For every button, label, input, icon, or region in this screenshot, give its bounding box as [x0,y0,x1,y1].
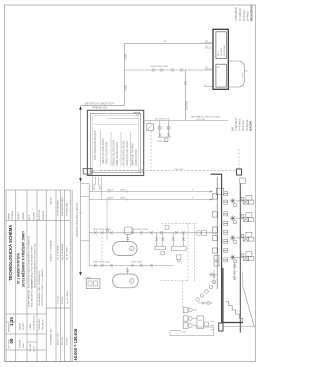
mixer M1 sunburst [230,198,236,263]
title block table [6,190,70,362]
blower assembly A2 [171,233,186,262]
pump train B piping [89,265,174,267]
svg-text:LWL/UWL: LWL/UWL [175,169,185,171]
svg-text:PROJEKCE: PROJEKCE [43,319,45,330]
svg-text:Ing. P. SVOBODA: Ing. P. SVOBODA [61,243,64,260]
tank T1 top right (double dark) [213,29,228,89]
svg-text:DN80: DN80 [120,190,126,192]
pump discharge loop [170,327,214,336]
box 2x ON [86,279,100,289]
wire feed line 2 [89,199,212,201]
svg-text:GN: GN [198,320,202,322]
svg-text:2014-031: 2014-031 [62,336,64,345]
wire pipe C with valves [124,69,213,71]
svg-text:OBJEKT: OBJEKT [18,211,20,220]
svg-text:(2): (2) [204,85,207,87]
compartment 2 [216,64,226,87]
dashed control lines center [102,131,197,307]
svg-text:AUTOR: AUTOR [50,197,53,205]
stub wires into tank T1 [204,42,213,86]
diagonal symbol chain [196,270,216,301]
svg-text:(2)-DN25: (2)-DN25 [187,100,189,110]
svg-text:DN100: DN100 [94,183,96,190]
wire pipe D to shaft [81,105,125,107]
svg-text:05/2014: 05/2014 [67,337,69,345]
svg-text:DN80: DN80 [125,84,128,91]
svg-text:STAVBA: STAVBA [22,212,25,220]
svg-text:SOUPRAVA CISLO: SOUPRAVA CISLO [50,327,53,345]
svg-text:OBJEDNATEL: OBEC HORNI MESTO: OBJEDNATEL: OBEC HORNI MESTO [38,270,41,306]
wire pipe A top [124,42,213,44]
svg-text:MERITKO: MERITKO [9,322,11,332]
tank T2 bottom right [223,268,243,323]
svg-text:DN80 DN80 DN80: DN80 DN80 DN80 [131,229,149,231]
svg-text:V=4.8m3: V=4.8m3 [238,119,242,131]
basin side components column [212,188,223,266]
svg-text:ARCH. CISLO: ARCH. CISLO [57,332,60,345]
vessel V1 rounded right [228,61,244,87]
svg-text:ZHOTOVITEL: VODA CZ s.r.o. HRA: ZHOTOVITEL: VODA CZ s.r.o. HRADEC [41,268,44,306]
svg-text:1:35 / A1: 1:35 / A1 [57,295,60,304]
svg-text:t=28-35°C: t=28-35°C [234,117,238,131]
svg-text:ZODP.PROJEKTANT: ZODP.PROJEKTANT [61,196,64,216]
aerator box groups right [236,178,254,261]
svg-text:CIS. ZAK.: CIS. ZAK. [29,343,32,352]
svg-text:Ing. M. CERNY: Ing. M. CERNY [67,246,69,260]
instrument box dark [237,169,242,175]
basin B1 walls [211,174,222,322]
svg-text:BA25N: BA25N [249,121,253,131]
svg-text:(2): (2) [205,67,208,69]
svg-text:S=8m2: S=8m2 [246,11,250,21]
right service line [239,184,241,333]
level mark [133,112,140,115]
suction line from basin [209,273,217,275]
svg-text:BK: BK [231,127,235,131]
svg-text:BIOPLYNOVA STANICE HORNI MESTO: BIOPLYNOVA STANICE HORNI MESTO U RYMAROV… [27,235,30,288]
svg-text:OBSAH: OBSAH [8,212,11,220]
svg-text:UTVAR: UTVAR [29,323,32,330]
svg-text:AKCE: AKCE [28,214,31,220]
svg-text:H=6.9m: H=6.9m [242,10,246,21]
fittings chain right [233,262,236,280]
svg-text:t=80-85°C: t=80-85°C [234,6,238,21]
svg-text:BIOODPAD: BIOODPAD [223,45,226,56]
svg-text:Ing.ARCH. J. NOVACEK: Ing.ARCH. J. NOVACEK [50,239,53,262]
svg-text:C1 C2: C1 C2 [89,171,96,173]
svg-text:VYPRACOVAL: VYPRACOVAL [66,202,69,216]
vessel pump PA [113,242,137,256]
svg-text:DN80 DN80: DN80 DN80 [131,262,143,264]
svg-text:Ing. K. DVORAK: Ing. K. DVORAK [57,245,60,260]
svg-text:Ing. M. CERNY: Ing. M. CERNY [67,290,69,304]
wire neutral line F [143,120,228,122]
svg-text:FORMAT: FORMAT [19,339,22,348]
riser to trains [106,200,108,241]
bottom pump station: three pump units [183,307,203,328]
svg-text:ZPET POTRUBNI KALOVE: ZPET POTRUBNI KALOVE [94,130,97,160]
svg-text:KRAJ MORAVSKOSLEZSKY: KRAJ MORAVSKOSLEZSKY [30,279,33,307]
title block texts [8,225,25,287]
svg-text:HL.PROJEKTANT: HL.PROJEKTANT [57,199,60,216]
vertical main to basin [184,70,186,121]
svg-text:DN80 DN80 DN80: DN80 DN80 DN80 [93,229,111,231]
svg-text:REALIZACNI DOKUMENTACE TECHNOL: REALIZACNI DOKUMENTACE TECHNOLOGIE [33,243,36,288]
svg-text:07.1 ANOXYKRYSTA: 07.1 ANOXYKRYSTA [17,252,21,284]
svg-text:(2): (2) [205,40,208,42]
svg-text:STUPEN: STUPEN [34,211,36,220]
svg-text:DATUM: DATUM [19,323,22,330]
svg-text:OKRES BRUNTAL: OKRES BRUNTAL [27,289,30,307]
svg-text:DN100: DN100 [107,198,114,200]
pipe with up arrow (left riser) [80,107,82,276]
svg-text:DN80: DN80 [120,198,126,200]
compartment 1 [216,32,226,59]
pump train A piping [89,232,217,234]
svg-text:2x CN: 2x CN [181,332,187,334]
left manifold vertical [88,183,90,265]
svg-text:V=4.8m3: V=4.8m3 [238,8,242,21]
foot box [219,323,223,331]
svg-text:STREDISKO: STREDISKO [39,318,41,330]
svg-text:DN100: DN100 [107,190,114,192]
drain link [81,182,90,184]
svg-text:DN80 PREPAD JIMKY: DN80 PREPAD JIMKY [116,141,119,166]
wire feed line 1 [89,191,212,193]
svg-text:VODY DN100 GRAV.: VODY DN100 GRAV. [106,141,109,164]
line to tank with valve [198,302,213,304]
svg-text:PROFESE: PROFESE [43,210,45,220]
vessel pump PB [113,274,139,288]
svg-text:DN100 VYTLAK CERP.: DN100 VYTLAK CERP. [126,141,129,166]
svg-text:DB: DB [245,71,249,73]
stairs [225,302,243,323]
corner drain mark [139,169,143,173]
svg-text:PREFAB. DN: PREFAB. DN [93,106,107,109]
svg-text:TECHNOLOGIE: TECHNOLOGIE [34,315,36,330]
TB box [165,226,169,230]
wire vertical drop B [123,43,125,105]
svg-text:DN DN DN DN: DN DN DN DN [155,119,170,121]
svg-text:±0.000 = 136.616: ±0.000 = 136.616 [73,328,78,361]
valve bypass assembly [158,121,171,143]
svg-text:14-031: 14-031 [34,345,36,352]
svg-text:VYKRESU: VYKRESU [12,210,14,220]
sump pit at box bottom [83,169,92,175]
node label BIOODPAD (top-right rotated text block) [234,4,253,21]
tank U1 concrete shaft box (double border) [87,110,143,175]
svg-text:BIOODPAD: BIOODPAD [250,4,254,21]
svg-text:S=4m2: S=4m2 [242,72,244,79]
svg-text:H=6.3m: H=6.3m [241,120,245,131]
dashed control line to box [100,170,237,172]
svg-text:D: D [164,39,166,43]
pipes below shaft box [93,177,102,200]
svg-text:DN80 DN80 DN80: DN80 DN80 DN80 [150,66,169,68]
svg-text:CIS. VYKR.: CIS. VYKR. [9,338,11,349]
svg-text:DN80: DN80 [125,53,128,60]
svg-text:SO 03 MĚŠÁRNY A PŘEČERP. JÍMKY: SO 03 MĚŠÁRNY A PŘEČERP. JÍMKY [20,230,25,287]
svg-text:DN80 DN80: DN80 DN80 [157,141,169,143]
blower assembly A1 [155,233,165,255]
svg-text:S.U.L.BK: S.U.L.BK [196,119,206,121]
svg-text:TECHNOLOGICKÁ SCHÉMA: TECHNOLOGICKÁ SCHÉMA [8,225,13,281]
svg-text:S=42m2: S=42m2 [245,119,249,131]
svg-text:INVESTOR: INVESTOR [39,209,41,220]
shaft inner lines [107,117,139,119]
svg-text:DN80: DN80 [100,184,102,190]
node label BA25N (right mid rotated text block) [231,117,253,131]
svg-text:ODPADNI VODA DN100 ODPAD: ODPADNI VODA DN100 ODPAD [76,203,79,237]
embankment diagonal [223,286,255,326]
svg-text:PRIJEM: PRIJEM [221,48,223,56]
shaft inner content rotated labels [94,130,138,166]
svg-text:DN150 ODTOK: DN150 ODTOK [135,149,138,166]
blower P1 small [124,227,132,234]
svg-text:(2): (2) [205,46,208,48]
pump circle on line [196,231,201,236]
svg-text:05/2014: 05/2014 [23,322,25,330]
border frame [5,5,256,362]
pipe N box assembly [147,124,154,131]
svg-text:05/2014: 05/2014 [62,296,64,304]
svg-text:NK: NK [217,67,221,69]
